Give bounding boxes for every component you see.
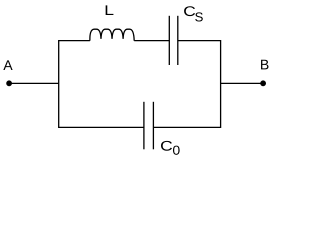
wire right bus to B [221,82,264,84]
label A [3,60,12,70]
label Cs : C [184,6,195,16]
capacitor Cs right plate [177,16,179,65]
label Cs : subscript S [195,12,203,21]
capacitor C0 left plate [143,102,145,150]
label L [106,5,114,15]
label B [261,60,268,70]
wire left bus with corners (top-left, left side, bottom-left) [59,41,144,128]
node B [261,81,266,86]
node A [7,81,12,86]
capacitor Cs left plate [168,16,170,65]
label C0 : subscript 0 [173,146,180,155]
capacitor C0 right plate [152,102,154,150]
inductor L coil [90,29,134,41]
label C0 : C [161,141,172,151]
wire coil to Cs [134,40,169,42]
wire right bus with corners (top-right, right side, bottom-right) [154,41,221,128]
wire A to left bus [9,82,59,84]
